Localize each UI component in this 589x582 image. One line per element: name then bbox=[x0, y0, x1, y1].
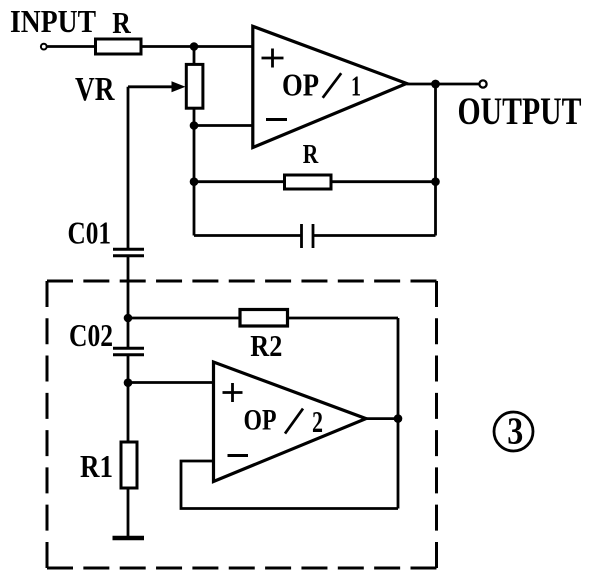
U2 - sign bbox=[228, 454, 249, 457]
capacitor C01 bottom plate bbox=[113, 254, 144, 257]
svg-text:C01: C01 bbox=[68, 215, 112, 251]
svg-text:OP: OP bbox=[282, 66, 319, 102]
potentiometer VR body bbox=[186, 64, 203, 108]
dashed box bottom edge bbox=[47, 567, 437, 570]
op-amp U2 bbox=[214, 362, 367, 482]
junction node H bbox=[394, 414, 403, 423]
wire bottom feedback left segment bbox=[194, 234, 302, 237]
junction node C bbox=[190, 177, 199, 186]
VR wiper arrowhead bbox=[172, 81, 186, 92]
wire node C to feedback resistor R bbox=[194, 180, 285, 183]
wire C01 to node F bbox=[127, 256, 130, 348]
junction node F bbox=[124, 314, 133, 323]
svg-text:R: R bbox=[303, 138, 319, 169]
capacitor C01 top plate bbox=[113, 248, 144, 251]
svg-text:INPUT: INPUT bbox=[10, 4, 96, 39]
wire U1 output bbox=[407, 83, 479, 86]
svg-text:VR: VR bbox=[75, 71, 115, 108]
dashed box left edge bbox=[46, 281, 49, 568]
capacitor C02 top plate bbox=[113, 347, 144, 350]
wire feedback resistor to node D bbox=[331, 180, 436, 183]
U2 + sign bbox=[223, 383, 243, 402]
wire node G to U2 + input bbox=[128, 381, 214, 384]
VR wiper wire bbox=[128, 85, 174, 88]
wire resistor R to op-amp U1 + input bbox=[141, 45, 253, 48]
wire U2 feedback loop bbox=[181, 461, 398, 509]
svg-text:R1: R1 bbox=[80, 448, 113, 484]
capacitor (feedback) right plate bbox=[312, 224, 315, 248]
wire VR bottom down to capacitor corner bbox=[193, 108, 196, 235]
capacitor (feedback) left plate bbox=[300, 224, 303, 248]
resistor R (input) bbox=[96, 39, 142, 54]
wire wiper node down to C01 bbox=[127, 87, 130, 250]
wire node B to U1 inverting input bbox=[194, 124, 253, 127]
wire node F to R2 bbox=[128, 317, 240, 320]
circled 3 symbol bbox=[494, 412, 533, 451]
ground bbox=[113, 536, 145, 541]
wire U2 output bbox=[366, 417, 398, 420]
dashed box top edge bbox=[47, 280, 437, 283]
resistor R2 bbox=[240, 310, 288, 327]
output terminal bbox=[479, 80, 486, 87]
op-amp U1 bbox=[253, 26, 407, 147]
svg-text:C02: C02 bbox=[69, 317, 113, 353]
junction node E bbox=[431, 80, 440, 89]
wire R1 to ground bbox=[127, 488, 130, 537]
wire input terminal to resistor R bbox=[47, 45, 96, 48]
wire right rail up to output node bbox=[434, 84, 437, 236]
svg-text:R: R bbox=[112, 5, 131, 40]
capacitor C02 bottom plate bbox=[113, 353, 144, 356]
svg-text:OUTPUT: OUTPUT bbox=[458, 90, 582, 133]
svg-text:OP: OP bbox=[244, 404, 277, 437]
wire R2 to right rail bbox=[288, 317, 399, 320]
U1 + sign bbox=[262, 49, 284, 68]
junction node G bbox=[124, 378, 133, 387]
wire bottom feedback right segment bbox=[313, 234, 436, 237]
svg-text:3: 3 bbox=[507, 411, 523, 453]
dashed box right edge bbox=[435, 281, 438, 568]
input terminal bbox=[41, 44, 47, 50]
svg-text:R2: R2 bbox=[250, 328, 282, 363]
junction node B bbox=[190, 121, 199, 130]
wire C02 to R1 bbox=[127, 355, 130, 442]
wire node A down to VR bbox=[193, 47, 196, 65]
svg-text:2: 2 bbox=[312, 404, 323, 439]
junction node D bbox=[431, 177, 440, 186]
U1 - sign bbox=[266, 118, 287, 121]
junction node A bbox=[190, 42, 199, 51]
wire right rail of dashed box bbox=[397, 318, 400, 509]
resistor R (feedback) bbox=[285, 175, 332, 189]
svg-text:1: 1 bbox=[351, 71, 361, 102]
resistor R1 bbox=[121, 442, 137, 488]
